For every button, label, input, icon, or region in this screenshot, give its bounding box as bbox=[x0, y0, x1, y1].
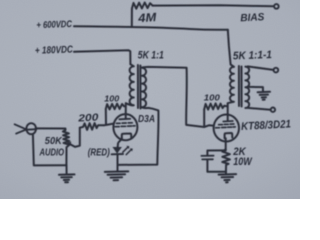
wire: T1 secondary top to KT88 grid bbox=[143, 67, 214, 127]
tube D3A envelope bbox=[113, 114, 137, 140]
resistor 100 (KT88) left leg bbox=[203, 109, 205, 127]
wire: jack to pot top bbox=[36, 127, 66, 129]
input jack connector bbox=[26, 123, 36, 134]
wire: secondary top to output terminal bbox=[248, 66, 274, 70]
ground (pot) bbox=[59, 165, 75, 182]
wire: stub from +600 rail up to 4M bbox=[131, 9, 133, 27]
potentiometer 50K element bbox=[63, 129, 70, 166]
output transformer core bbox=[238, 66, 240, 106]
wire: 200 to D3A grid bbox=[104, 124, 114, 126]
interstage transformer core bbox=[137, 65, 139, 108]
wire: secondary tap to ground bbox=[248, 87, 263, 92]
background paper bbox=[0, 0, 300, 199]
ground (secondary tap) bbox=[258, 92, 270, 100]
wire: drop to output transformer primary bbox=[228, 30, 234, 67]
KT88 plate bbox=[223, 120, 233, 123]
LED (RED) triangle bbox=[113, 147, 122, 154]
D3A grid dashes row 2 bbox=[115, 125, 135, 128]
capacitor top plate bbox=[201, 155, 213, 157]
BIAS terminal bbox=[274, 4, 279, 9]
resistor 100 (D3A) bbox=[106, 104, 126, 110]
wire: secondary bottom to output terminal bbox=[248, 108, 271, 110]
ground (KT88 cathode) bbox=[219, 172, 237, 183]
tube KT88 envelope bbox=[214, 115, 239, 142]
wire: pot bottom / box bottom bbox=[33, 134, 67, 165]
resistor 4M bbox=[132, 3, 153, 9]
LED cathode bar bbox=[112, 153, 123, 155]
resistor 100 (D3A grid-plate) left leg bbox=[105, 109, 107, 125]
wire: 4M to BIAS terminal bbox=[153, 5, 274, 6]
wire: KT88 cathode to node bbox=[225, 138, 227, 150]
LED arrows bbox=[123, 147, 128, 152]
input jack plug bbox=[15, 124, 27, 133]
pot wiper arrow bbox=[68, 128, 79, 147]
KT88 grid dashes row 2 bbox=[216, 126, 236, 129]
wire: node left to capacitor bbox=[207, 150, 225, 155]
output transformer T2 primary coil bbox=[228, 67, 234, 104]
D3A plate bbox=[119, 118, 130, 121]
LED lead down bbox=[117, 147, 119, 171]
wire: T2 primary bottom to KT88 plate bbox=[227, 103, 229, 121]
wire: D3A cathode lead to LED bbox=[118, 138, 122, 147]
KT88 grid dashes row 1 bbox=[219, 123, 234, 126]
wire: T1 primary bottom to D3A plate bbox=[125, 103, 127, 119]
D3A cathode bbox=[122, 134, 132, 139]
ground (LED / D3A cathode) bbox=[105, 171, 129, 180]
capacitor bottom plate bbox=[202, 158, 213, 160]
+180VDC rail wire bbox=[74, 50, 130, 64]
resistor 200 bbox=[80, 123, 104, 130]
KT88 cathode bbox=[225, 133, 233, 138]
output terminal bottom bbox=[271, 108, 275, 112]
resistor 100 (KT88) bbox=[204, 103, 227, 109]
output transformer T2 secondary coil bbox=[245, 67, 249, 108]
output terminal top bbox=[274, 68, 279, 73]
+600VDC rail wire bbox=[74, 26, 228, 30]
wire: capacitor bottom to ground rail bbox=[207, 160, 226, 172]
resistor 2K 10W bbox=[222, 149, 230, 171]
interstage transformer T1 primary coil bbox=[126, 64, 134, 105]
D3A grid dashes row 1 bbox=[117, 122, 133, 125]
interstage transformer T1 secondary coil bbox=[142, 68, 146, 108]
wire: T1 secondary bottom down to LED cathode node bbox=[118, 107, 159, 165]
